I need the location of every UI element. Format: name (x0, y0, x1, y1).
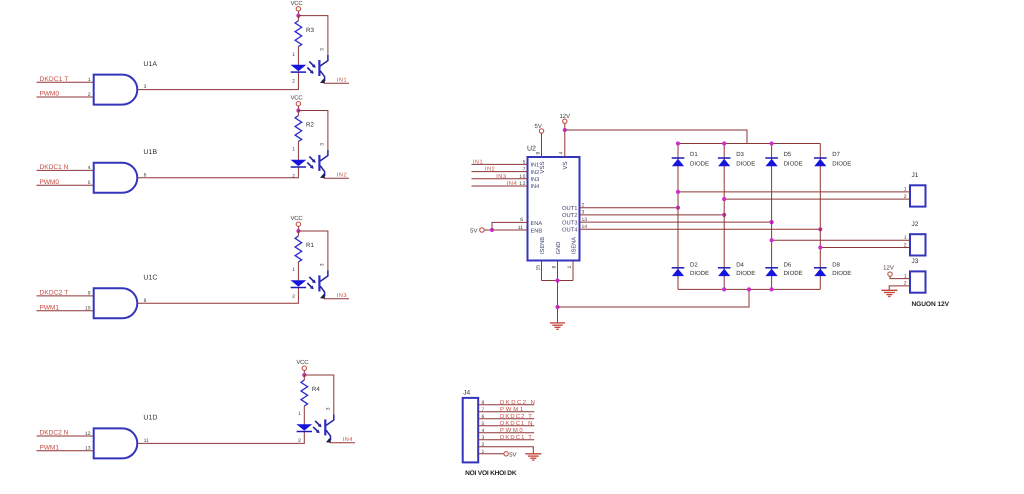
svg-text:D1: D1 (690, 151, 698, 158)
svg-text:8: 8 (551, 266, 557, 269)
svg-text:D5: D5 (784, 151, 792, 158)
svg-text:D3: D3 (736, 151, 744, 158)
wire: J4 pin 2 to ground (478, 447, 533, 454)
svg-text:2: 2 (292, 78, 295, 84)
svg-text:10: 10 (85, 306, 91, 312)
svg-text:13: 13 (582, 217, 588, 223)
svg-text:D8: D8 (832, 262, 840, 269)
wire: col2 mid to J1 pin 2 (724, 198, 910, 200)
wire: pin 1 ISENA stub (572, 261, 574, 281)
svg-text:2: 2 (904, 194, 907, 200)
svg-text:D4: D4 (736, 262, 744, 269)
svg-text:U1B: U1B (143, 149, 157, 156)
svg-text:U1D: U1D (143, 415, 157, 422)
svg-text:2: 2 (292, 173, 295, 179)
svg-text:4: 4 (88, 165, 91, 171)
phototransistor of optocoupler (320, 55, 328, 66)
wire: riser to ENA (492, 222, 528, 230)
node: OUT4 junction (818, 227, 822, 231)
light arrows of optocoupler (309, 62, 315, 68)
wire: net IN4 to U2 pin 12 (472, 185, 528, 187)
svg-text:3: 3 (320, 263, 326, 266)
wire: diode column at x=820.3 (819, 144, 821, 290)
svg-text:DIODE: DIODE (784, 270, 803, 277)
ground symbol (U2 GND) (550, 322, 565, 324)
AND gate U1D (94, 428, 138, 458)
svg-text:5: 5 (482, 421, 485, 427)
svg-text:5V: 5V (509, 451, 516, 458)
connector J2 (910, 234, 926, 255)
node: col2/J1 junction (722, 197, 726, 201)
svg-text:NOI VOI KHOI DK: NOI VOI KHOI DK (465, 470, 517, 477)
svg-text:NGUON 12V: NGUON 12V (912, 301, 950, 308)
svg-text:1: 1 (298, 411, 301, 417)
svg-text:1: 1 (88, 77, 91, 83)
svg-text:R3: R3 (306, 27, 314, 34)
svg-text:DIODE: DIODE (690, 270, 709, 277)
svg-text:6: 6 (482, 414, 485, 420)
diode D4 (718, 267, 731, 269)
wire: resistor to LED anode (303, 406, 305, 424)
node: bottom rail junction (gnd feed) (747, 287, 751, 291)
svg-text:IN2: IN2 (485, 167, 495, 173)
wire: J4 pin 1 to 5V (478, 453, 504, 455)
wire: col4 mid to J2 pin 2 (820, 247, 910, 249)
wire: U2 OUT4 pin 14 to diode column (580, 228, 821, 230)
wire: resistor to LED anode (297, 142, 299, 160)
resistor R4 (301, 380, 308, 406)
wire: J4 pin 7 net PWM1 (478, 411, 534, 413)
wire: pin 8 GND stub (557, 261, 559, 281)
wire: 12V to J3 pin 1 (890, 276, 910, 278)
svg-text:DIODE: DIODE (832, 270, 851, 277)
svg-text:4: 4 (482, 428, 485, 434)
IC U2 (motor driver) body (528, 157, 580, 261)
svg-text:R2: R2 (306, 122, 314, 129)
AND gate U1B (94, 163, 138, 193)
svg-text:VS: VS (562, 161, 569, 169)
svg-text:1: 1 (292, 52, 295, 58)
svg-text:PWM0: PWM0 (40, 179, 60, 186)
wire: 5V to ENA/ENB (484, 229, 527, 231)
svg-text:OUT2: OUT2 (562, 212, 577, 219)
node: col3/J2 junction (770, 238, 774, 242)
LED of optocoupler (IN3 row) (291, 280, 307, 286)
svg-text:R4: R4 (312, 386, 320, 393)
svg-text:DIODE: DIODE (784, 160, 803, 167)
svg-text:PWM1: PWM1 (40, 304, 60, 311)
wire: VCC to optocoupler collector (304, 375, 334, 414)
svg-text:14: 14 (582, 224, 588, 230)
svg-text:9: 9 (535, 152, 541, 155)
AND gate U1A (94, 75, 138, 105)
LED of optocoupler (IN1 row) (291, 65, 307, 71)
wire: J4 pin 6 net DKDC2 T (478, 418, 534, 420)
wire: col1 mid to J1 pin 1 (678, 191, 910, 193)
svg-text:DKDC1 T: DKDC1 T (500, 434, 532, 441)
wire: VCC to resistor R4 (303, 375, 305, 380)
node: bottom rail junction (col3) (770, 287, 774, 291)
connector J4 (463, 398, 479, 463)
LED of optocoupler (IN2 row) (291, 160, 307, 166)
wire: optocoupler emitter net IN3 (324, 298, 349, 300)
node: col4/J2 junction (818, 245, 822, 249)
wire: U2 OUT3 pin 13 to diode column (580, 221, 772, 223)
svg-text:DKDC2 T: DKDC2 T (500, 413, 532, 420)
node: VCC junction (296, 229, 300, 233)
AND gate U1C (94, 288, 138, 318)
svg-text:DIODE: DIODE (832, 160, 851, 167)
node: OUT3 junction (770, 220, 774, 224)
light arrows of optocoupler (315, 421, 321, 427)
wire: optocoupler emitter net IN4 (330, 442, 355, 444)
svg-text:10: 10 (519, 174, 526, 180)
svg-text:IN4: IN4 (507, 181, 517, 187)
wire: VCC to optocoupler collector (298, 231, 328, 270)
svg-text:1: 1 (482, 449, 485, 455)
wire: VCC to resistor R1 (297, 231, 299, 236)
svg-text:3: 3 (482, 435, 485, 441)
svg-text:5: 5 (523, 159, 526, 165)
node: enable junction (490, 228, 494, 232)
node: 12V junction (563, 128, 567, 132)
wire: input PWM1 to gate U1C pin 10 (37, 310, 94, 312)
wire: diode column at x=724.2 (723, 144, 725, 290)
svg-text:DIODE: DIODE (736, 270, 755, 277)
svg-text:IN1: IN1 (473, 160, 483, 166)
wire: J4 pin 8 net DKDC2 N (478, 404, 534, 406)
svg-text:3: 3 (582, 210, 585, 216)
svg-text:12: 12 (85, 431, 91, 437)
wire: input PWM1 to gate U1D pin 13 (37, 450, 94, 452)
svg-text:2: 2 (88, 92, 91, 98)
diode D2 (672, 267, 685, 269)
diode D1 (672, 157, 685, 159)
svg-text:1: 1 (567, 266, 573, 269)
svg-text:11: 11 (518, 225, 523, 231)
svg-text:D7: D7 (832, 151, 840, 158)
svg-text:J4: J4 (463, 389, 470, 396)
wire: resistor to LED anode (297, 47, 299, 65)
wire: input PWM0 to gate U1B pin 5 (37, 184, 94, 186)
wire: J4 pin 3 net DKDC1 T (478, 439, 534, 441)
svg-text:J2: J2 (912, 221, 919, 228)
node: OUT2 junction (722, 213, 726, 217)
wire: gate output to LED cathode (IN1 row) (137, 72, 298, 90)
svg-text:U1A: U1A (143, 61, 157, 68)
connector J3 (910, 271, 926, 292)
svg-text:12V: 12V (883, 265, 894, 272)
svg-text:DKDC1 T: DKDC1 T (40, 76, 69, 83)
wire: 12V to diode bridge top rail (565, 130, 747, 144)
wire: VCC to resistor R2 (297, 111, 299, 116)
svg-text:7: 7 (482, 407, 485, 413)
svg-text:ENA: ENA (531, 221, 543, 227)
phototransistor of optocoupler (326, 414, 334, 425)
svg-text:U2: U2 (527, 146, 536, 153)
svg-text:8: 8 (482, 400, 485, 406)
wire: ground stem (557, 281, 559, 323)
wire: diode column at x=771.6 (771, 144, 773, 290)
svg-text:15: 15 (535, 265, 541, 271)
wire: ground to J3 pin 2 (889, 286, 910, 290)
wire: J4 pin 5 net DKDC1 N (478, 425, 534, 427)
ground symbol (J4) (525, 453, 541, 455)
svg-text:IN1: IN1 (337, 78, 347, 84)
svg-text:7: 7 (523, 167, 526, 173)
svg-text:D2: D2 (690, 262, 698, 269)
svg-text:DKDC1 N: DKDC1 N (500, 420, 532, 427)
wire: input DKDC1 N to gate U1B pin 4 (37, 169, 94, 171)
svg-text:2: 2 (582, 202, 585, 208)
svg-text:VCC: VCC (296, 359, 309, 366)
wire: net IN1 to U2 pin 5 (472, 163, 528, 165)
node: top rail junction (722, 141, 726, 145)
svg-text:J3: J3 (912, 258, 919, 265)
wire: ground to diode bridge bottom rail (558, 289, 750, 307)
svg-text:ISENB: ISENB (540, 237, 546, 254)
wire: 12V to pin 4 (564, 124, 566, 158)
node: top rail junction (770, 141, 774, 145)
node: VCC junction (296, 108, 300, 112)
wire: bridge top rail (678, 143, 820, 145)
node: ground tap junction (555, 305, 559, 309)
power symbol 5V (J4) (504, 452, 508, 456)
svg-text:IN2: IN2 (337, 172, 347, 178)
svg-text:GND: GND (556, 242, 562, 255)
svg-text:IN3: IN3 (337, 293, 347, 299)
svg-text:VSS: VSS (539, 161, 546, 173)
svg-text:1: 1 (904, 187, 907, 193)
phototransistor of optocoupler (320, 270, 328, 281)
svg-text:DIODE: DIODE (690, 160, 709, 167)
resistor R3 (295, 21, 302, 47)
wire: pin 15 ISENB stub (541, 261, 543, 281)
diode D7 (814, 157, 827, 159)
wire: net IN2 to U2 pin 7 (472, 171, 528, 173)
svg-text:12: 12 (519, 181, 526, 187)
svg-text:13: 13 (85, 446, 91, 452)
wire: U2 OUT1 pin 2 to diode column (580, 207, 679, 209)
svg-text:3: 3 (320, 48, 326, 51)
svg-text:2: 2 (482, 442, 485, 448)
svg-text:IN3: IN3 (531, 177, 540, 183)
svg-text:5V: 5V (470, 227, 477, 234)
node: bottom rail junction (col2) (722, 287, 726, 291)
svg-text:IN3: IN3 (496, 174, 506, 180)
svg-text:PWM1: PWM1 (40, 445, 60, 452)
svg-text:J1: J1 (912, 172, 919, 179)
svg-text:DIODE: DIODE (736, 160, 755, 167)
svg-text:IN4: IN4 (343, 437, 353, 443)
svg-text:DKDC2 T: DKDC2 T (40, 290, 69, 297)
resistor R1 (295, 236, 302, 262)
wire: J4 pin 4 net PWM0 (478, 432, 534, 434)
svg-text:DKDC2 N: DKDC2 N (500, 399, 535, 406)
wire: gate output to LED cathode (IN4 row) (137, 431, 304, 443)
wire: optocoupler emitter net IN2 (324, 177, 349, 179)
svg-text:OUT1: OUT1 (562, 205, 577, 212)
svg-text:2: 2 (298, 438, 301, 444)
svg-text:2: 2 (292, 294, 295, 300)
svg-text:VCC: VCC (291, 0, 304, 7)
svg-text:6: 6 (520, 217, 523, 223)
node: col1/J1 junction (676, 190, 680, 194)
svg-text:9: 9 (88, 291, 91, 297)
wire: gate output to LED cathode (IN3 row) (137, 287, 298, 303)
svg-text:IN4: IN4 (531, 184, 540, 190)
wire: VCC to optocoupler collector (298, 111, 328, 150)
svg-text:1: 1 (904, 235, 907, 241)
diode D8 (814, 267, 827, 269)
diode D3 (718, 157, 731, 159)
svg-text:5: 5 (88, 180, 91, 186)
wire: input DKDC2 N to gate U1D pin 12 (37, 435, 94, 437)
ground symbol (J3) (881, 289, 897, 291)
svg-text:OUT3: OUT3 (562, 219, 577, 226)
svg-text:U1C: U1C (143, 275, 157, 282)
svg-text:OUT4: OUT4 (562, 227, 578, 234)
diode D5 (765, 157, 778, 159)
svg-text:3: 3 (326, 407, 332, 410)
wire: 5V to pin 9 (541, 133, 543, 157)
node: VCC junction (296, 14, 300, 18)
wire: sense/ground bus (542, 280, 574, 282)
svg-text:4: 4 (559, 152, 565, 155)
LED of optocoupler (IN4 row) (296, 424, 312, 430)
wire: input DKDC1 T to gate U1A pin 1 (37, 81, 94, 83)
light arrows of optocoupler (309, 277, 315, 283)
svg-text:DKDC2 N: DKDC2 N (40, 430, 69, 437)
wire: net IN3 to U2 pin 10 (472, 178, 528, 180)
diode D6 (765, 267, 778, 269)
wire: optocoupler emitter net IN1 (324, 82, 349, 84)
wire: input PWM0 to gate U1A pin 2 (37, 96, 94, 98)
wire: input DKDC2 T to gate U1C pin 9 (37, 295, 94, 297)
svg-text:1: 1 (292, 147, 295, 153)
node: ground bus junction (555, 278, 559, 282)
light arrows of optocoupler (309, 156, 315, 162)
wire: bridge bottom rail (678, 288, 820, 290)
resistor R2 (295, 116, 302, 142)
svg-text:ENB: ENB (531, 228, 543, 234)
svg-text:DKDC1 N: DKDC1 N (40, 164, 69, 171)
wire: U2 OUT2 pin 3 to diode column (580, 214, 725, 216)
svg-text:VCC: VCC (291, 215, 304, 222)
wire: resistor to LED anode (297, 262, 299, 280)
wire: gate output to LED cathode (IN2 row) (137, 167, 298, 178)
svg-text:PWM0: PWM0 (40, 91, 60, 98)
svg-text:3: 3 (320, 143, 326, 146)
svg-text:R1: R1 (306, 242, 314, 249)
connector J1 (910, 185, 926, 206)
svg-text:IN2: IN2 (531, 170, 540, 176)
svg-text:1: 1 (292, 267, 295, 273)
phototransistor of optocoupler (320, 150, 328, 161)
wire: col3 mid to J2 pin 1 (772, 239, 910, 241)
wire: VCC to optocoupler collector (298, 16, 328, 55)
node: VCC junction (302, 373, 306, 377)
svg-text:ISENA: ISENA (571, 237, 577, 254)
svg-text:2: 2 (904, 242, 907, 248)
svg-text:IN1: IN1 (531, 163, 540, 169)
wire: VCC to resistor R3 (297, 16, 299, 21)
svg-text:D6: D6 (784, 262, 792, 269)
wire: diode column at x=678.0 (677, 144, 679, 290)
node: OUT1 junction (676, 206, 680, 210)
node: top rail junction (676, 141, 680, 145)
svg-text:VCC: VCC (291, 95, 304, 102)
